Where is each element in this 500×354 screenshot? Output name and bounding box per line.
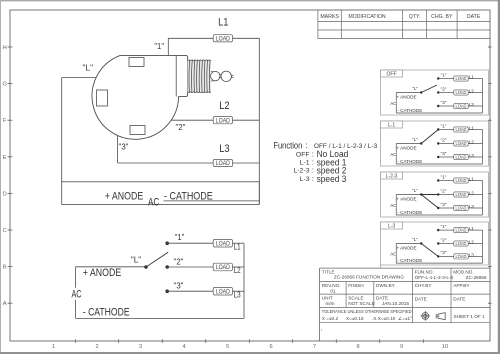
svg-text:+ ANODE: + ANODE [396,197,416,202]
svg-text:"2": "2" [441,86,447,91]
svg-text:"1": "1" [441,72,447,77]
svg-text:X =±0.2: X =±0.2 [322,316,339,321]
svg-text:L2: L2 [469,140,475,145]
svg-text:"2": "2" [174,257,184,266]
svg-text:L1: L1 [469,226,475,231]
svg-text:"2": "2" [441,137,447,142]
svg-text:"3": "3" [119,142,129,151]
svg-text:+ ANODE: + ANODE [83,267,121,279]
svg-text:DWN.BY: DWN.BY [376,283,396,288]
svg-text:L3: L3 [469,204,475,209]
svg-text:"1": "1" [441,174,447,179]
svg-text:DATE: DATE [376,296,388,301]
svg-text:ZC-26856: ZC-26856 [466,275,487,280]
svg-text:"L": "L" [131,255,142,264]
svg-text:L-3: L-3 [300,176,310,183]
svg-text:LOAD: LOAD [455,254,466,259]
svg-text:"L": "L" [412,188,418,193]
svg-text:AC: AC [390,251,397,256]
svg-text:"2": "2" [441,188,447,193]
svg-text:AC: AC [390,101,397,106]
svg-text:L3: L3 [234,290,241,299]
svg-text:H: H [3,45,7,51]
svg-text:LOAD: LOAD [216,289,231,295]
svg-text:- CATHODE: - CATHODE [397,159,422,164]
svg-text:- CATHODE: - CATHODE [397,258,422,263]
svg-text:LOAD: LOAD [455,76,466,81]
svg-text:"1": "1" [441,123,447,128]
svg-text:9: 9 [400,344,403,350]
svg-text:LOAD: LOAD [455,155,466,160]
svg-text:X=±0.15: X=±0.15 [346,316,364,321]
svg-text:2: 2 [95,344,98,350]
svg-text:L1: L1 [469,177,475,182]
svg-text:5: 5 [226,344,229,350]
svg-text:LOAD: LOAD [455,228,466,233]
svg-text:L2: L2 [469,191,475,196]
svg-text:REV.NO.: REV.NO. [322,283,341,288]
svg-text:DATE: DATE [453,297,465,302]
svg-text:6: 6 [269,344,272,350]
svg-text:ZC-26856 FUNCTION DRAWING: ZC-26856 FUNCTION DRAWING [334,274,404,279]
svg-text:LOAD: LOAD [455,127,466,132]
svg-text:L1: L1 [234,242,241,251]
svg-text:E: E [3,155,7,161]
svg-text:D: D [3,191,7,197]
svg-text:L-2-3: L-2-3 [386,173,398,179]
svg-text:+ ANODE: + ANODE [396,95,416,100]
svg-text:L2: L2 [219,100,229,112]
svg-text:"2": "2" [441,237,447,242]
svg-text:- CATHODE: - CATHODE [83,307,130,319]
svg-text:C: C [3,228,7,234]
svg-text:∠=±1°: ∠=±1° [398,316,412,321]
svg-text:m/m: m/m [325,301,334,306]
svg-text:"3": "3" [441,151,447,156]
svg-text:.X.X=±0.10: .X.X=±0.10 [372,316,396,321]
svg-text:MOD.NO.: MOD.NO. [453,269,474,274]
svg-text:AC: AC [71,289,81,301]
svg-text:L2: L2 [234,266,241,275]
svg-text:L-3: L-3 [388,223,395,229]
svg-text:L2: L2 [469,240,475,245]
svg-text:FUN.NO.: FUN.NO. [415,269,434,274]
svg-text:"L": "L" [412,86,418,91]
svg-text:L1: L1 [218,17,228,29]
svg-text:L3: L3 [219,143,229,155]
svg-text:"L": "L" [412,137,418,142]
svg-text:LOAD: LOAD [455,104,466,109]
svg-text:CHG. BY: CHG. BY [431,14,453,20]
svg-text:+ ANODE: + ANODE [396,146,416,151]
svg-text:1: 1 [52,344,55,350]
svg-text:LOAD: LOAD [455,241,466,246]
svg-text:L3: L3 [469,153,475,158]
svg-text:TITLE: TITLE [322,269,335,274]
svg-text:"3": "3" [174,281,184,290]
svg-text:QTY.: QTY. [409,14,420,20]
svg-text:L1: L1 [469,126,475,131]
svg-text:AC: AC [390,203,397,208]
svg-text:TOLERANCE UNLESS OTHERWISE SPE: TOLERANCE UNLESS OTHERWISE SPECIFIED [322,309,412,315]
svg-text:"2": "2" [176,123,186,132]
svg-text:LOAD: LOAD [455,192,466,197]
svg-text:L-1: L-1 [300,159,310,166]
svg-text:7: 7 [313,344,316,350]
svg-text:JAN.10.2015: JAN.10.2015 [382,301,409,306]
svg-text:NOT SCALE: NOT SCALE [348,301,374,306]
svg-text:3: 3 [139,344,142,350]
svg-text:LOAD: LOAD [455,178,466,183]
svg-text:LOAD: LOAD [455,206,466,211]
svg-text:"L": "L" [412,237,418,242]
svg-text:L-2-3: L-2-3 [294,167,310,174]
svg-text:B: B [3,265,7,271]
svg-text:speed 3: speed 3 [317,174,347,185]
svg-text:SHEET 1 OF 1: SHEET 1 OF 1 [454,314,486,319]
svg-text:L1: L1 [469,75,475,80]
svg-text:SCALE: SCALE [348,296,363,301]
svg-text:OFF-L-1-L-2-3-L-3: OFF-L-1-L-2-3-L-3 [415,275,454,280]
svg-text:LOAD: LOAD [455,141,466,146]
svg-text:10: 10 [442,344,448,350]
svg-text:L3: L3 [469,252,475,257]
svg-text:F: F [3,118,7,124]
svg-text:- CATHODE: - CATHODE [397,210,422,215]
svg-text:"1": "1" [175,233,185,242]
svg-text:A: A [3,301,7,307]
svg-text:8: 8 [356,344,359,350]
svg-text:LOAD: LOAD [216,118,231,124]
svg-text:G: G [2,82,7,88]
svg-text:L-1: L-1 [388,122,395,128]
svg-text:01: 01 [330,288,336,293]
svg-text:L3: L3 [469,102,475,107]
svg-text::: : [305,141,307,150]
svg-text:L2: L2 [469,89,475,94]
svg-text:- CATHODE: - CATHODE [397,108,422,113]
svg-text:"3": "3" [441,202,447,207]
svg-text:UNIT: UNIT [322,296,333,301]
svg-text:CHY.BY: CHY.BY [415,283,433,288]
svg-text:DATE: DATE [467,14,481,20]
svg-text:Function: Function [273,139,302,150]
svg-text:MODIFICATION: MODIFICATION [348,14,386,20]
svg-text:MARKS: MARKS [320,14,339,20]
svg-text:"3": "3" [441,250,447,255]
svg-text:FINISH: FINISH [348,283,363,288]
svg-text:+ ANODE: + ANODE [396,246,416,251]
svg-text:"3": "3" [441,100,447,105]
svg-text:LOAD: LOAD [216,241,231,247]
svg-text:"1": "1" [154,42,164,51]
svg-text:LOAD: LOAD [216,36,231,42]
svg-text:OFF: OFF [387,71,397,77]
svg-text:AC: AC [148,196,159,208]
svg-text:’: ’ [321,330,322,336]
svg-text:"L": "L" [83,64,94,73]
svg-text:OFF: OFF [296,151,310,158]
svg-text:AC: AC [390,152,397,157]
svg-text:LOAD: LOAD [455,90,466,95]
svg-text:LOAD: LOAD [216,265,231,271]
svg-text:LOAD: LOAD [216,161,231,167]
svg-text:DATE: DATE [415,297,427,302]
svg-text:4: 4 [182,344,185,350]
svg-text:"1": "1" [441,224,447,229]
svg-text::: : [312,174,314,183]
svg-text:+ ANODE: + ANODE [105,190,143,202]
svg-text:APP.BY: APP.BY [453,283,470,288]
